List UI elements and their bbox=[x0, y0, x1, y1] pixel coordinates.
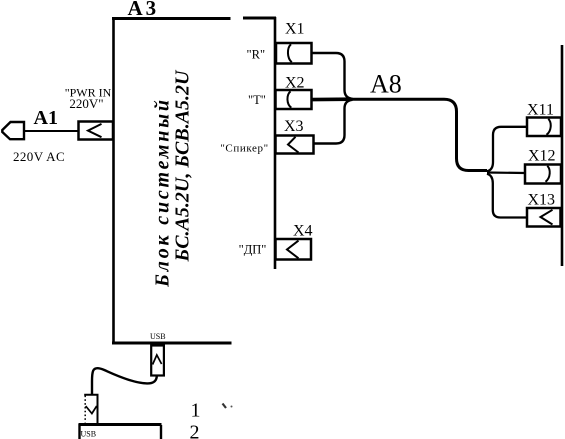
USB cable bbox=[92, 368, 157, 394]
label X12 bbox=[528, 148, 556, 165]
svg-text:"T": "T" bbox=[248, 93, 266, 107]
svg-text:X1: X1 bbox=[285, 21, 305, 38]
label X11 bbox=[527, 102, 554, 119]
plug A1 bbox=[2, 122, 24, 139]
svg-text:2: 2 bbox=[190, 422, 200, 439]
label USB (block A3) bbox=[150, 332, 166, 341]
label "T" bbox=[248, 93, 266, 107]
connector X13 bbox=[527, 208, 561, 227]
label "ДП" bbox=[239, 243, 267, 257]
connector X1 bbox=[276, 43, 312, 64]
connector PWR IN box bbox=[79, 122, 114, 140]
label X1 bbox=[285, 21, 305, 38]
wire junction to X11 bbox=[487, 127, 527, 172]
label 220V AC bbox=[13, 149, 65, 164]
svg-text:Блок системный: Блок системный bbox=[152, 97, 174, 288]
wire junction to X13 bbox=[487, 174, 527, 218]
svg-text:"R": "R" bbox=[247, 48, 266, 62]
list item 1 bbox=[191, 400, 201, 422]
block A3 outline top edge segment 1 bbox=[112, 17, 231, 20]
label A3 bbox=[128, 0, 160, 20]
list item 2 bbox=[190, 422, 200, 439]
label A1 bbox=[34, 107, 58, 129]
connector USB on A3 bbox=[151, 346, 164, 376]
svg-text:"Спикер": "Спикер" bbox=[220, 143, 268, 155]
block A3 outline left edge bbox=[112, 17, 115, 344]
block A3 outline right edge bbox=[274, 17, 277, 269]
connector X12 bbox=[525, 165, 561, 184]
connector X2 bbox=[276, 90, 312, 109]
svg-text:A8: A8 bbox=[370, 70, 402, 99]
block A3 outline top edge segment 2 bbox=[243, 17, 276, 20]
svg-text:X13: X13 bbox=[528, 192, 556, 209]
svg-text:A1: A1 bbox=[34, 107, 58, 129]
label USB (bottom unit) bbox=[81, 430, 97, 439]
block A3 name text line 1 bbox=[152, 97, 174, 288]
wire X3 to junction A8 bbox=[314, 100, 353, 144]
label X2 bbox=[285, 75, 305, 92]
svg-text:USB: USB bbox=[81, 430, 97, 439]
svg-text:A3: A3 bbox=[128, 0, 160, 20]
label X4 bbox=[293, 223, 313, 240]
svg-text:"ДП": "ДП" bbox=[239, 243, 267, 257]
label A8 bbox=[370, 70, 402, 99]
block A3 name text line 2 bbox=[172, 69, 194, 263]
right unit edge bbox=[561, 45, 564, 266]
label PWR IN 220V bbox=[65, 86, 112, 112]
cable A8 trunk wire bbox=[349, 99, 487, 170]
label "R" bbox=[247, 48, 266, 62]
svg-text:1: 1 bbox=[191, 400, 201, 422]
wire A1 to PWR IN bbox=[24, 130, 79, 132]
connector X4 bbox=[276, 239, 312, 260]
connector X3 bbox=[276, 136, 314, 154]
connector X11 bbox=[527, 118, 561, 137]
bottom unit outline bbox=[79, 424, 162, 439]
faded mark after item 1 bbox=[223, 404, 233, 409]
svg-text:220V AC: 220V AC bbox=[13, 149, 65, 164]
wire junction to X12 bbox=[487, 171, 525, 174]
svg-text:X11: X11 bbox=[527, 102, 554, 119]
svg-text:БС.А5.2U, БСВ.А5.2U: БС.А5.2U, БСВ.А5.2U bbox=[172, 69, 194, 263]
svg-text:USB: USB bbox=[150, 332, 166, 341]
svg-text:220V": 220V" bbox=[69, 96, 103, 111]
wire X1 to junction A8 bbox=[312, 53, 353, 99]
label "Спикер" (faded) bbox=[220, 143, 268, 155]
svg-text:X4: X4 bbox=[293, 223, 313, 240]
label X3 bbox=[284, 118, 304, 135]
label X13 bbox=[528, 192, 556, 209]
svg-text:X3: X3 bbox=[284, 118, 304, 135]
block A3 outline bottom edge bbox=[112, 342, 232, 345]
connector USB on bottom unit bbox=[84, 395, 97, 423]
svg-text:X12: X12 bbox=[528, 148, 556, 165]
wire X2 to junction A8 bbox=[312, 97, 352, 101]
